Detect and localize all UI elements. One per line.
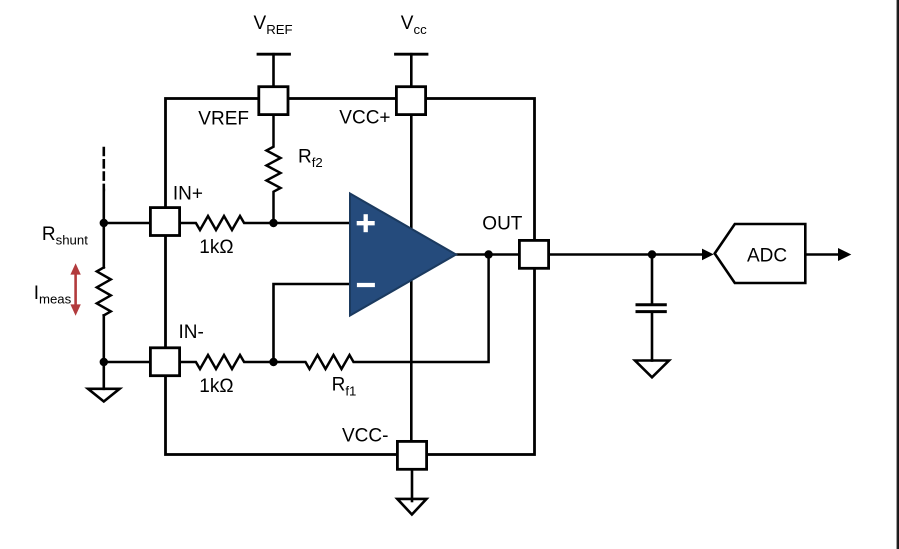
svg-text:ADC: ADC	[747, 245, 787, 266]
svg-text:OUT: OUT	[482, 214, 523, 235]
svg-text:1kΩ: 1kΩ	[199, 237, 233, 258]
svg-text:VREF: VREF	[198, 109, 249, 130]
svg-text:IN-: IN-	[179, 322, 204, 343]
svg-text:VCC-: VCC-	[342, 426, 388, 447]
svg-text:VCC+: VCC+	[339, 108, 390, 129]
svg-text:IN+: IN+	[173, 183, 203, 204]
svg-text:1kΩ: 1kΩ	[199, 376, 233, 397]
